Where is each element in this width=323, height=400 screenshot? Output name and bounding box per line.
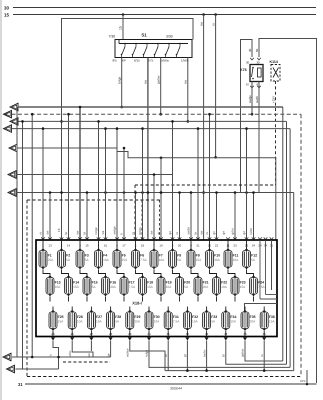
wire S1 output sw [187, 58, 189, 122]
pin 19 [159, 237, 163, 239]
wire F27 stub up [90, 307, 92, 313]
fuse F21 [194, 275, 209, 296]
svg-text:19: 19 [159, 244, 163, 248]
svg-text:10A: 10A [230, 320, 237, 324]
svg-text:10A: 10A [166, 285, 173, 289]
svg-text:F27: F27 [96, 315, 102, 319]
svg-text:16: 16 [104, 244, 108, 248]
dashed mech link horizontal [135, 184, 276, 186]
wire F12 to F24 jog [247, 270, 254, 278]
pin bottom 31 [166, 338, 170, 341]
wire F20 stub down [179, 297, 181, 302]
dashed enclosure left [26, 200, 28, 377]
wire F31 down to Ld [167, 346, 169, 371]
wire F25 jog to b1/b2 [53, 346, 59, 369]
wire bottom bus b2 [16, 368, 59, 370]
junction 105/L7 [104, 191, 107, 194]
junction S1 thick/L7 [147, 191, 150, 194]
junction loop/L7 [60, 191, 63, 194]
svg-text:K76: K76 [240, 68, 247, 72]
wire pin to fuse F12 [246, 240, 248, 251]
svg-text:15: 15 [85, 244, 89, 248]
wire drop L6 end [172, 175, 174, 241]
wire bus L2 (dashed) [12, 113, 302, 115]
svg-text:15A: 15A [192, 320, 199, 324]
pin bottom 35 [243, 338, 247, 341]
wire F27 to bottom pin [90, 331, 92, 337]
wire rail15 down V1 [203, 15, 205, 241]
pin 6 [134, 237, 138, 239]
svg-text:gr: gr [157, 232, 161, 235]
fuse F30 [145, 310, 160, 331]
svg-text:F28: F28 [115, 315, 121, 319]
svg-text:15A: 15A [240, 285, 247, 289]
dashed channel right [159, 200, 161, 240]
wire F15 stub down [86, 297, 88, 302]
junction [134, 191, 137, 194]
junction rail15 V2 [214, 13, 217, 16]
svg-text:gr: gr [183, 354, 187, 357]
pin 4 [97, 237, 101, 239]
pin bottom 25 [51, 338, 55, 341]
pin 20 [178, 237, 182, 239]
off-page connector A6 [8, 171, 16, 179]
svg-text:15A: 15A [122, 258, 129, 262]
wire drop sw/bl to fuse box [190, 193, 192, 241]
svg-text:15: 15 [4, 12, 10, 17]
junction [123, 147, 126, 150]
dashed enclosure top [27, 199, 160, 201]
svg-text:8/5: 8/5 [113, 59, 118, 63]
junction [67, 113, 70, 116]
svg-text:ge/sw: ge/sw [241, 348, 245, 357]
svg-text:30: 30 [147, 332, 151, 336]
svg-text:F35: F35 [250, 315, 256, 319]
fuse box X18 outline [36, 240, 277, 337]
junction [245, 127, 248, 130]
wire F3 to F15 jog [80, 270, 87, 278]
svg-text:ge/sw: ge/sw [157, 75, 161, 84]
fuse F24 [250, 275, 266, 296]
wire rail 15 [13, 14, 316, 16]
off-page connector B2 [7, 365, 15, 373]
svg-text:F11: F11 [233, 253, 239, 257]
fuse F23 [231, 275, 246, 296]
wire pin to fuse F6 [135, 240, 137, 251]
wire K76 out left [251, 82, 253, 115]
svg-text:15A: 15A [73, 285, 80, 289]
svg-text:F8: F8 [177, 253, 181, 257]
svg-text:5/56a: 5/56a [161, 59, 169, 63]
junction [31, 113, 34, 116]
wire drop gr to fuse box [160, 193, 162, 241]
svg-text:sw/bl: sw/bl [255, 96, 259, 103]
wire F30 stub up [148, 307, 150, 313]
dashed enclosure bottom [27, 376, 301, 378]
svg-text:sw/ro: sw/ro [202, 349, 206, 357]
wire drop L7 right [293, 193, 295, 371]
junction [97, 120, 100, 123]
wire F16 stub down [105, 297, 107, 302]
svg-text:ro/br: ro/br [249, 228, 253, 234]
switch contact S1-3 [143, 43, 148, 56]
svg-text:gr/ro: gr/ro [231, 228, 235, 235]
wire rail15 down V2 [215, 15, 217, 158]
svg-text:13: 13 [48, 244, 52, 248]
svg-text:F29: F29 [134, 315, 140, 319]
svg-text:18: 18 [141, 244, 145, 248]
wire K76 out right [258, 82, 260, 193]
svg-text:F18: F18 [147, 280, 153, 284]
wire pin to fuse F5 [116, 240, 118, 251]
junction [116, 127, 119, 130]
pin bottom 32 [185, 338, 189, 341]
pin 24 [258, 237, 262, 239]
svg-text:sw: sw [184, 79, 188, 84]
wire F14 stub down [68, 297, 70, 302]
junction right riser / rail 31 [306, 383, 309, 386]
wire drop L2 right (dashed border) [300, 114, 302, 376]
fuse F8 [169, 248, 182, 269]
svg-text:+15V: +15V [271, 96, 275, 103]
svg-text:F16: F16 [110, 280, 116, 284]
wire S1 output sw [147, 58, 149, 241]
wire rail 31 [25, 383, 317, 385]
svg-text:F21: F21 [203, 280, 209, 284]
wire S1 output ge/sw [160, 58, 162, 115]
wire drop ro to fuse box [135, 193, 137, 241]
svg-text:87: 87 [246, 83, 250, 87]
pin 13 [48, 237, 52, 239]
wire bus L6 [16, 174, 173, 176]
svg-text:br/ro: br/ro [68, 350, 72, 357]
fuse F26 [68, 310, 83, 331]
wire bottom bus b1 [12, 356, 111, 358]
wire F29 jog to Ld [130, 346, 165, 371]
junction [104, 127, 107, 130]
svg-text:25A: 25A [48, 258, 55, 262]
fuse F5 [113, 248, 128, 269]
wire drop L4 right [289, 129, 291, 368]
junction [190, 191, 193, 194]
svg-text:30Gb44: 30Gb44 [170, 387, 182, 391]
wire F25 stub up [52, 307, 54, 313]
junction [141, 127, 144, 130]
fuse F33 [203, 310, 218, 331]
switch contact S1-4 [154, 43, 159, 56]
svg-text:F36: F36 [269, 315, 275, 319]
switch S1 [115, 33, 192, 58]
wire F21 stub down [197, 297, 199, 302]
svg-text:15: 15 [57, 228, 61, 232]
svg-text:14: 14 [67, 244, 71, 248]
fuse F13 [46, 275, 61, 296]
wire pin to fuse F1 [42, 240, 44, 251]
wire drop gr/ro to fuse box [234, 193, 236, 241]
svg-text:S1: S1 [141, 33, 147, 38]
svg-text:7.5A: 7.5A [129, 285, 136, 289]
wire bottom pin down [225, 341, 227, 347]
wire drop sw/ge to fuse box [116, 129, 118, 240]
svg-text:gn: gn [212, 231, 216, 235]
wire left column b [22, 121, 24, 369]
svg-text:25: 25 [51, 332, 55, 336]
wire pin to fuse F3 [79, 240, 81, 251]
wire S1 3/30 loop to pin 2 [62, 19, 194, 241]
pin 14 [67, 237, 71, 239]
svg-text:30: 30 [246, 61, 250, 65]
wire drop ge to fuse box [246, 129, 248, 240]
pin 8 [171, 237, 175, 239]
pin bottom 33 [205, 338, 209, 341]
svg-text:15A: 15A [269, 320, 276, 324]
switch contact S1-1 [121, 43, 126, 56]
wire stair L5 to box right [117, 148, 276, 240]
svg-text:31: 31 [167, 332, 171, 336]
svg-text:15A: 15A [147, 285, 154, 289]
fuse F15 [83, 275, 98, 296]
pin 9 [189, 237, 193, 239]
wire bus L4 [12, 128, 291, 130]
svg-text:F31: F31 [173, 315, 179, 319]
wire left column a [16, 107, 18, 357]
pin 11 [226, 237, 230, 239]
svg-text:K114: K114 [270, 60, 278, 64]
wire bus L1 [18, 106, 283, 108]
svg-text:F17: F17 [129, 280, 135, 284]
junction [159, 113, 162, 116]
wire F8 to F20 jog [173, 270, 180, 278]
svg-text:ws/sw: ws/sw [126, 348, 130, 357]
fuse F12 [243, 248, 258, 269]
wire bottom pin down [129, 341, 131, 347]
pin K76-85 [257, 86, 261, 88]
svg-text:X18-I: X18-I [132, 301, 142, 306]
junction stair/161 [160, 157, 163, 160]
pin 2 [60, 237, 64, 239]
svg-text:sw: sw [199, 21, 203, 26]
wire F30 to L4 drop [149, 346, 290, 367]
wire F35 to bottom pin [244, 331, 246, 337]
svg-text:F33: F33 [211, 315, 217, 319]
svg-text:ws: ws [101, 230, 105, 234]
pin bottom 30 [147, 338, 151, 341]
wire K76 pin to right edge down to rail 31 [259, 39, 317, 384]
wire K76 pin30 feed [241, 40, 253, 193]
svg-text:6/15: 6/15 [134, 59, 140, 63]
wire F27 stub [90, 346, 92, 351]
wire bottom pin down [167, 341, 169, 347]
pin 10 [208, 237, 212, 239]
wire F9 to F21 jog [191, 270, 198, 278]
svg-text:30A: 30A [214, 258, 221, 262]
fuse F20 [176, 275, 191, 296]
wire internal right b2 [266, 294, 278, 296]
svg-text:15: 15 [119, 26, 123, 30]
wire bottom pin down [263, 341, 265, 347]
wire F2 to F14 jog [62, 270, 69, 278]
svg-text:26: 26 [71, 332, 75, 336]
svg-text:F2: F2 [66, 253, 70, 257]
fuse F3 [76, 248, 89, 269]
fuse F34 [222, 310, 237, 331]
pin bottom 34 [224, 338, 228, 341]
wire F35 to L1 drop [245, 346, 283, 361]
fuse F31 [164, 310, 180, 331]
pin 23 [233, 237, 237, 239]
svg-text:sw/ge: sw/ge [248, 95, 252, 103]
svg-text:br/gn: br/gn [138, 227, 142, 234]
wire F34 stub up [225, 307, 227, 313]
wire internal right b [265, 240, 267, 295]
wire contact to pin [165, 54, 167, 58]
junction [208, 113, 211, 116]
svg-text:ro: ro [131, 231, 135, 234]
wire F32 stub up [186, 307, 188, 313]
svg-text:27: 27 [90, 332, 94, 336]
wire drop br to fuse box [68, 114, 70, 240]
junction rail15 V1 [202, 13, 205, 16]
svg-text:31: 31 [18, 382, 23, 387]
pin K76-87 [250, 86, 254, 88]
wire drop li to fuse box [123, 148, 125, 240]
svg-text:F13: F13 [55, 280, 61, 284]
wire F35 stub up [244, 307, 246, 313]
wire S1 bus to pin [118, 40, 120, 44]
switch contact S1-6 [176, 43, 181, 56]
junction [120, 106, 123, 109]
pin bottom 36 [262, 338, 266, 341]
wire internal right a2 [260, 298, 277, 300]
wire F19 stub down [160, 297, 162, 302]
wire pin to fuse F10 [209, 240, 211, 251]
junction [49, 191, 52, 194]
svg-text:35: 35 [243, 332, 247, 336]
pin 7 [152, 237, 156, 239]
svg-text:10A: 10A [221, 285, 228, 289]
svg-text:F6: F6 [140, 253, 144, 257]
svg-text:24: 24 [252, 244, 256, 248]
wire contact to pin [121, 54, 123, 58]
pin 15 [85, 237, 89, 239]
svg-text:29: 29 [128, 332, 132, 336]
pin 34 [264, 237, 268, 239]
svg-text:ge: ge [242, 231, 246, 235]
svg-text:20: 20 [178, 244, 182, 248]
svg-text:sw: sw [144, 79, 148, 84]
pin bottom 29 [128, 338, 132, 341]
wire pin to fuse F4 [98, 240, 100, 251]
off-page connector A4 [4, 125, 12, 133]
svg-text:F19: F19 [166, 280, 172, 284]
junction F36/Ld [263, 369, 266, 372]
relay K76 [240, 65, 263, 82]
fuse F9 [187, 248, 202, 269]
wire F25 to bottom pin [52, 331, 54, 337]
wire F11 to F23 jog [228, 270, 235, 278]
junction [21, 120, 24, 123]
wire contact to pin [143, 54, 145, 58]
wire pin to fuse F8 [172, 240, 174, 251]
junction [153, 173, 156, 176]
svg-text:F4: F4 [103, 253, 107, 257]
wire drop ws to fuse box [105, 129, 107, 240]
svg-text:21: 21 [196, 244, 200, 248]
wire pin to fuse F7 [153, 240, 155, 251]
svg-text:7.5A: 7.5A [258, 285, 265, 289]
fuse F7 [150, 248, 165, 269]
svg-text:F24: F24 [258, 280, 264, 284]
svg-text:10A: 10A [159, 258, 166, 262]
fuse F27 [87, 310, 102, 331]
wire drop gn to fuse box [216, 193, 218, 241]
wire bottom pin down [206, 341, 208, 347]
junction 161/L7 [160, 191, 163, 194]
svg-text:F5: F5 [122, 253, 126, 257]
wire rail 30 [13, 7, 316, 9]
wire F31 to bottom pin [167, 331, 169, 337]
wire F29 stub up [129, 307, 131, 313]
svg-text:F7: F7 [159, 253, 163, 257]
wire drop ro to fuse box [179, 193, 181, 241]
svg-text:7.5A: 7.5A [173, 320, 180, 324]
wire drop ro/br to fuse box [253, 193, 255, 241]
svg-text:34: 34 [224, 332, 228, 336]
wire F18 stub down [142, 297, 144, 302]
pin 5 [115, 237, 119, 239]
junction V2/stair [214, 156, 217, 159]
wire F29 to bottom pin [129, 331, 131, 337]
pin 18 [141, 237, 145, 239]
svg-text:F9: F9 [196, 253, 200, 257]
svg-text:F22: F22 [221, 280, 227, 284]
svg-text:7/30: 7/30 [109, 35, 116, 39]
wire F28 to bottom pin [110, 331, 112, 337]
svg-text:30A: 30A [110, 285, 117, 289]
pin K76-30 [250, 58, 254, 60]
svg-text:33: 33 [205, 332, 209, 336]
svg-text:87: 87 [257, 83, 261, 87]
svg-text:10A: 10A [103, 258, 110, 262]
fuse F10 [206, 248, 221, 269]
pin K76-50 [257, 58, 261, 60]
off-page connector A3 [10, 118, 18, 126]
wire F24 stub down [253, 297, 255, 302]
junction [42, 127, 45, 130]
fuse F25 [49, 310, 64, 331]
wire internal right a [259, 240, 261, 299]
svg-text:F26: F26 [77, 315, 83, 319]
wire bottom pin down [110, 341, 112, 347]
dashed channel left [141, 200, 143, 240]
wire drop sw to fuse box [79, 107, 81, 240]
switch K114 [270, 60, 281, 81]
svg-text:10A: 10A [55, 285, 62, 289]
junction [178, 191, 181, 194]
wire F22 stub down [216, 297, 218, 302]
junction F32/Ld [186, 369, 189, 372]
wire drop ge to fuse box [172, 121, 174, 240]
svg-text:36: 36 [263, 332, 267, 336]
fuse F1 [39, 248, 54, 269]
junction L7 [245, 191, 248, 194]
pin 17 [122, 237, 126, 239]
svg-text:F1: F1 [48, 253, 52, 257]
junction [197, 127, 200, 130]
junction loop/L3 [60, 120, 63, 123]
wire S1 internal bus [119, 43, 188, 45]
junction rail15 / S1 feed [122, 13, 125, 16]
